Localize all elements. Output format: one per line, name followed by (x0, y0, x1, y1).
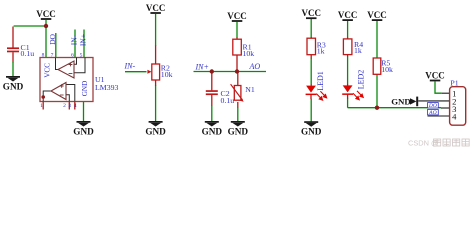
svg-text:LED2: LED2 (357, 70, 366, 90)
svg-text:7: 7 (51, 52, 54, 58)
svg-text:4: 4 (452, 112, 457, 122)
svg-text:5: 5 (80, 52, 83, 58)
svg-text:3: 3 (68, 103, 71, 109)
svg-text:1k: 1k (354, 46, 362, 55)
svg-text:P1: P1 (450, 79, 458, 88)
svg-text:AO: AO (249, 62, 261, 71)
svg-text:2: 2 (63, 103, 66, 109)
svg-text:DO: DO (428, 103, 437, 109)
svg-text:LM393: LM393 (95, 83, 118, 92)
svg-text:IN-: IN- (70, 34, 79, 45)
svg-text:IN-: IN- (124, 62, 136, 71)
svg-text:10k: 10k (161, 70, 173, 79)
svg-text:LED1: LED1 (316, 71, 325, 91)
svg-text:AO: AO (428, 110, 436, 116)
svg-text:6: 6 (71, 52, 74, 58)
svg-text:DO: DO (48, 34, 57, 45)
svg-text:0.1u: 0.1u (21, 49, 35, 58)
svg-text:10k: 10k (381, 65, 393, 74)
svg-text:IN+: IN+ (195, 63, 209, 72)
svg-text:10k: 10k (243, 49, 255, 58)
svg-text:GND: GND (81, 81, 89, 97)
svg-text:0.1u: 0.1u (221, 96, 235, 105)
svg-text:VCC: VCC (43, 63, 51, 78)
svg-text:4: 4 (74, 103, 77, 109)
svg-text:8: 8 (42, 52, 45, 58)
svg-text:N1: N1 (245, 85, 255, 94)
svg-text:IN+: IN+ (79, 34, 88, 46)
svg-text:1k: 1k (317, 47, 325, 56)
svg-text:GND: GND (391, 96, 411, 106)
svg-text:1: 1 (40, 103, 43, 109)
